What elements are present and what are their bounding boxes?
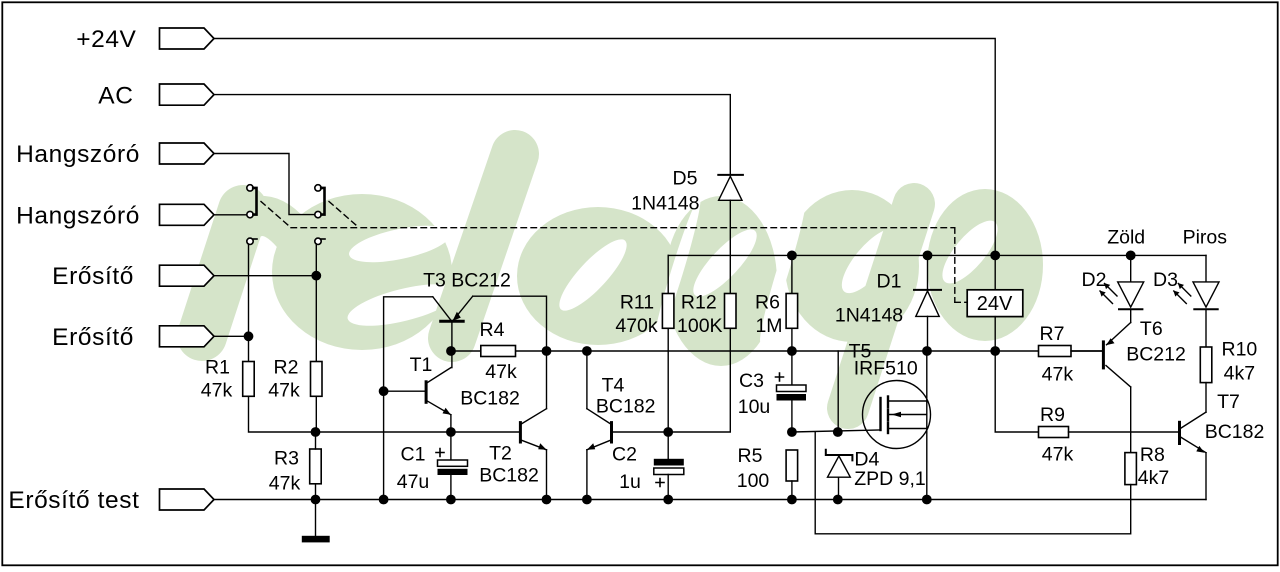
wire gate node <box>792 351 881 436</box>
svg-text:4k7: 4k7 <box>1138 467 1169 489</box>
connector Hangszóró 1 <box>160 143 215 164</box>
connector AC <box>160 84 215 105</box>
svg-text:R7: R7 <box>1040 323 1065 345</box>
svg-text:R5: R5 <box>738 445 763 467</box>
wire Hangszóró 1 to switch S2 <box>214 154 315 215</box>
svg-text:BC182: BC182 <box>1205 421 1265 443</box>
svg-text:470k: 470k <box>615 315 658 337</box>
svg-text:Erősítő test: Erősítő test <box>8 487 139 514</box>
svg-text:1M: 1M <box>755 315 782 337</box>
wire Hangszóró 2 to switch S1 <box>214 214 247 216</box>
svg-text:R12: R12 <box>681 292 717 314</box>
wire base rail left (T2 base) <box>316 431 521 433</box>
svg-text:D3: D3 <box>1153 269 1178 291</box>
connector Hangszóró 2 <box>160 204 215 225</box>
transistor T6 <box>1071 323 1131 453</box>
node R1 top junction <box>244 332 252 340</box>
connector Erősítő 1 <box>160 265 215 286</box>
capacitor C3 <box>776 351 807 436</box>
svg-text:4k7: 4k7 <box>1224 363 1255 385</box>
svg-text:47k: 47k <box>269 473 301 495</box>
svg-text:IRF510: IRF510 <box>854 358 918 380</box>
wire T1 left vertical <box>379 297 432 504</box>
relay linkage dashed <box>261 202 967 303</box>
svg-text:1u: 1u <box>619 471 641 493</box>
wire Erősítő 1 <box>214 275 316 277</box>
node Erősítő1 junction <box>312 272 320 280</box>
connector Erősítő 2 <box>160 326 215 347</box>
node R4 right <box>542 347 550 355</box>
svg-text:Hangszóró: Hangszóró <box>16 141 140 168</box>
resistor R2 <box>311 362 323 397</box>
svg-text:1N4148: 1N4148 <box>835 305 903 327</box>
svg-text:10u: 10u <box>738 396 771 418</box>
diode D4 zener <box>826 450 853 504</box>
watermark reloop <box>202 154 1043 408</box>
capacitor C2 <box>654 428 684 504</box>
svg-text:100: 100 <box>737 470 770 492</box>
svg-text:T7: T7 <box>1217 391 1240 413</box>
ground <box>303 495 330 541</box>
svg-text:T3 BC212: T3 BC212 <box>423 270 511 292</box>
wire switch1 NO to R1 <box>248 244 250 362</box>
node T3 collector / R4 left <box>447 347 455 355</box>
svg-text:Erősítő: Erősítő <box>52 324 134 351</box>
resistor R7 <box>1039 346 1072 357</box>
svg-text:C3: C3 <box>739 370 764 392</box>
svg-text:R6: R6 <box>755 292 780 314</box>
resistor R10 <box>1200 347 1212 383</box>
resistor R5 <box>786 450 798 504</box>
svg-text:R10: R10 <box>1222 339 1258 361</box>
resistor R11 <box>662 255 674 432</box>
transistor T3 <box>433 296 547 367</box>
svg-text:R9: R9 <box>1040 404 1065 426</box>
relay switch S1 <box>247 185 257 245</box>
svg-text:Erősítő: Erősítő <box>52 263 134 290</box>
svg-text:R2: R2 <box>274 357 299 379</box>
svg-text:D2: D2 <box>1082 269 1107 291</box>
resistor R8 <box>1125 453 1137 485</box>
resistor R12 <box>668 294 736 433</box>
svg-text:C1: C1 <box>401 444 426 466</box>
svg-text:47k: 47k <box>1042 364 1074 386</box>
transistor T7 <box>1180 383 1207 500</box>
resistor R6 <box>786 251 798 355</box>
svg-text:T4: T4 <box>602 375 625 397</box>
svg-text:BC182: BC182 <box>596 396 656 418</box>
capacitor C1 <box>436 428 468 504</box>
svg-text:R3: R3 <box>274 447 299 469</box>
svg-text:AC: AC <box>98 82 133 109</box>
resistor R9 <box>1039 427 1180 438</box>
svg-text:R4: R4 <box>480 319 505 341</box>
transistor T5 MOSFET <box>863 347 932 504</box>
svg-text:Zöld: Zöld <box>1107 227 1145 249</box>
svg-text:47u: 47u <box>397 471 430 493</box>
resistor R1 <box>243 362 255 397</box>
svg-text:+24V: +24V <box>76 26 136 53</box>
node base rail R3 junction <box>311 428 319 436</box>
svg-text:T1: T1 <box>410 354 433 376</box>
transistor T1 <box>384 368 451 432</box>
svg-text:BC212: BC212 <box>1126 344 1186 366</box>
svg-text:T6: T6 <box>1140 318 1163 340</box>
transistor T4 <box>583 347 669 504</box>
svg-text:47k: 47k <box>268 380 300 402</box>
svg-text:47k: 47k <box>201 380 233 402</box>
resistor R4 <box>481 346 516 357</box>
diode D1 <box>914 251 941 351</box>
wire R9 branch <box>995 351 1038 432</box>
wire switch2 NO to R2 <box>315 244 317 362</box>
svg-text:BC182: BC182 <box>460 388 520 410</box>
wire Erősítő test rail <box>214 499 1206 501</box>
connector Erősítő test <box>160 489 215 510</box>
svg-text:C2: C2 <box>612 444 637 466</box>
svg-text:1N4148: 1N4148 <box>631 193 699 215</box>
svg-text:24V: 24V <box>977 293 1013 315</box>
wire R2 bottom <box>315 396 317 432</box>
connector +24V <box>160 28 215 49</box>
svg-text:100K: 100K <box>677 315 723 337</box>
relay coil 24V <box>967 251 1023 355</box>
svg-text:R1: R1 <box>205 357 230 379</box>
wire Erősítő 2 <box>214 335 249 337</box>
power rail y255 <box>668 254 1206 256</box>
diode D5 <box>718 175 743 294</box>
svg-text:D5: D5 <box>673 168 698 190</box>
wire R8 bottom loop <box>815 432 1130 534</box>
svg-text:47k: 47k <box>1042 444 1074 466</box>
transistor T2 <box>520 351 550 504</box>
LED D3 <box>1173 255 1219 347</box>
svg-text:Hangszóró: Hangszóró <box>16 202 140 229</box>
wire R1 bottom to base rail <box>249 396 316 432</box>
text labels <box>8 26 140 514</box>
svg-text:D1: D1 <box>877 271 902 293</box>
LED D2 <box>1100 251 1144 322</box>
svg-text:Piros: Piros <box>1183 227 1228 249</box>
wire +24V rail <box>214 39 995 256</box>
svg-text:47k: 47k <box>485 361 517 383</box>
resistor R3 <box>310 432 322 500</box>
relay switch S2 <box>315 185 325 245</box>
wire AC to D5 <box>214 95 730 175</box>
svg-text:R8: R8 <box>1140 444 1165 466</box>
level rail y351 <box>451 350 1103 352</box>
svg-text:ZPD 9,1: ZPD 9,1 <box>854 468 926 490</box>
svg-text:T2: T2 <box>489 443 512 465</box>
svg-text:BC182: BC182 <box>479 465 539 487</box>
svg-text:R11: R11 <box>620 292 654 314</box>
